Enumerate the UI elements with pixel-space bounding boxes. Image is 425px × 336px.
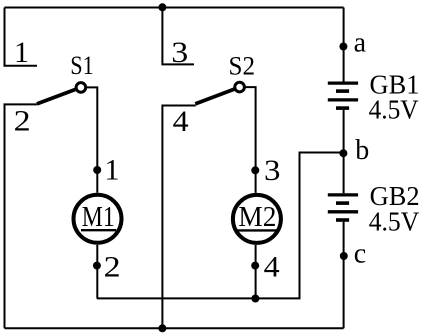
battery GB2 [328,195,358,220]
wire top bus [5,7,344,9]
label GB2 [370,181,420,211]
svg-text:M2: M2 [238,201,276,233]
wire terminal 2 stub and left bus down [5,104,37,328]
svg-text:4.5V: 4.5V [369,95,419,125]
wire right bus lower [343,222,345,328]
svg-text:4: 4 [264,250,280,283]
svg-text:S2: S2 [229,51,256,80]
junction dot 2 (motor M1 bottom) [93,262,101,270]
svg-text:2: 2 [14,104,31,137]
wire right bus upper [343,8,345,82]
svg-text:4.5V: 4.5V [369,207,420,237]
junction dot top [158,3,166,11]
wire middle drop from top junction to terminal 3 stub [162,8,194,65]
svg-text:M1: M1 [82,201,115,233]
svg-text:1: 1 [14,36,29,69]
switch S2 pivot circle [235,82,245,92]
motor M1 label [81,201,116,233]
junction dot bottom [158,324,166,332]
node b [339,149,347,157]
node a [339,43,347,51]
svg-text:2: 2 [104,250,121,283]
label GB1 [370,70,420,100]
label c [354,239,366,270]
battery GB1 [328,83,358,108]
wire S2 to motor M2 top [244,87,255,193]
wire bottom bus [5,327,344,329]
wire motor M1 bottom down [96,245,98,299]
label 1 (terminal) [14,36,29,69]
label 4 (motor M2 bottom) [264,250,280,283]
junction dot 3 (motor M2 top) [251,166,259,174]
svg-text:a: a [354,28,367,59]
label 3 (terminal) [171,36,188,69]
svg-text:S1: S1 [70,51,94,80]
wire right bus middle [343,110,345,193]
wire motor M2 bottom down [255,245,257,299]
switch S1 lever [37,87,81,104]
label S2 [229,51,256,80]
label 4.5V (GB2) [369,207,420,237]
wire terminal 4 stub and middle bus down [162,106,195,329]
label 4 (terminal) [173,105,189,138]
label 1 (motor M1 top) [105,154,120,187]
label 2 (motor M1 bottom) [104,250,121,283]
label S1 [70,51,94,80]
label 2 (terminal) [14,104,31,137]
svg-text:3: 3 [171,36,188,69]
wire left drop to terminal 1 stub [5,8,38,66]
junction dot 4 (motor M2 bottom) [251,262,259,270]
svg-text:c: c [354,239,366,270]
label a [354,28,367,59]
svg-text:3: 3 [264,154,281,187]
wire node b to left and down to motors bottom row [97,153,344,299]
junction dot 1 (motor M1 top) [93,166,101,174]
svg-text:b: b [355,135,369,166]
switch S1 pivot circle [76,83,86,93]
svg-text:4: 4 [173,105,189,138]
wire S1 to motor M1 top [86,87,98,192]
svg-text:1: 1 [105,154,120,187]
motor M2 label [238,201,277,233]
motor M2 circle [233,195,281,243]
motor M1 circle [74,195,122,243]
switch S2 lever [195,87,239,104]
label b [355,135,369,166]
junction dot M2 branch joins bottom row wire [251,295,259,303]
label 4.5V (GB1) [369,95,419,125]
node c [340,252,348,260]
label 3 (motor M2 top) [264,154,281,187]
